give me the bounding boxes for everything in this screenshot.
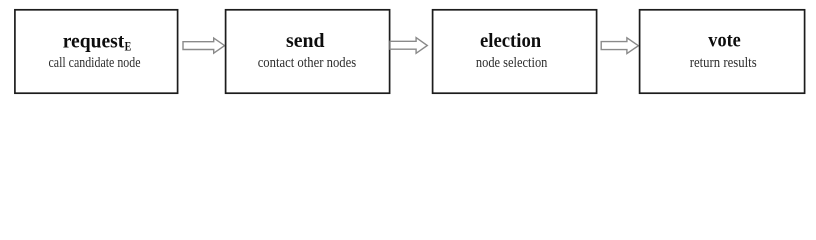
svg-text:vote: vote (708, 30, 741, 52)
svg-text:call candidate node: call candidate node (49, 55, 141, 71)
svg-text:contact other nodes: contact other nodes (258, 55, 357, 71)
box request (15, 10, 178, 93)
svg-text:E: E (125, 39, 132, 54)
arrow 1 (183, 38, 225, 53)
arrow 2 (390, 38, 427, 54)
svg-text:send: send (286, 30, 325, 52)
box send (226, 10, 390, 93)
box vote (640, 10, 805, 93)
svg-text:node selection: node selection (476, 55, 548, 71)
arrow 3 (601, 38, 638, 54)
box election (433, 10, 597, 93)
svg-text:request: request (63, 30, 125, 52)
svg-text:election: election (480, 30, 541, 52)
svg-text:return results: return results (690, 55, 757, 71)
